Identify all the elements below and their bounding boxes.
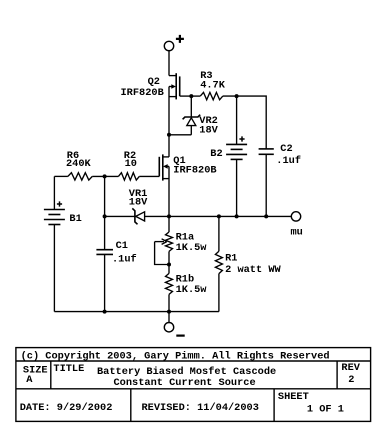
svg-text:1K.5w: 1K.5w <box>176 242 208 254</box>
battery B2 <box>226 96 247 216</box>
node - terminal (bottom) <box>164 323 173 332</box>
svg-text:4.7K: 4.7K <box>200 80 226 92</box>
svg-text:18V: 18V <box>129 196 148 208</box>
svg-text:C2: C2 <box>280 143 292 155</box>
svg-text:.1uf: .1uf <box>276 155 301 167</box>
junction dot Q2 gate node <box>189 94 193 98</box>
wire gate node to R3 <box>191 95 200 97</box>
svg-text:REVISED: 11/04/2003: REVISED: 11/04/2003 <box>142 402 259 414</box>
zener diode VR1 <box>132 208 144 224</box>
svg-text:2: 2 <box>348 374 354 386</box>
title block frame <box>16 348 371 422</box>
capacitor C1 <box>96 216 113 311</box>
svg-text:REV: REV <box>341 362 360 374</box>
resistor R2 <box>118 173 139 180</box>
junction dot C1 bottom <box>103 310 107 314</box>
junction dot divider/VR1/C1 <box>103 214 107 218</box>
potentiometer R1a <box>166 232 173 251</box>
junction dot R6/R2 <box>103 174 107 178</box>
resistor R6 <box>68 173 92 180</box>
wire divider node down <box>104 176 106 216</box>
resistor R1b <box>166 273 173 294</box>
svg-text:mu: mu <box>291 227 303 239</box>
svg-text:240K: 240K <box>66 158 92 170</box>
wire R3 to C2 top corner <box>223 96 266 149</box>
svg-text:1K.5w: 1K.5w <box>176 284 208 296</box>
transistor Q2 IRF820B <box>169 73 191 99</box>
minus label (bottom terminal) <box>176 335 184 337</box>
svg-text:TITLE: TITLE <box>53 363 84 375</box>
svg-text:1 OF 1: 1 OF 1 <box>307 404 344 416</box>
junction dot wiper node <box>167 263 171 267</box>
wire R6 to B1 <box>53 176 55 209</box>
svg-text:B1: B1 <box>69 213 81 225</box>
wire top terminal to Q2 drain <box>168 51 170 76</box>
wire R2 to Q1 gate <box>139 175 159 177</box>
node + terminal (top) <box>164 41 173 50</box>
svg-text:10: 10 <box>125 158 137 170</box>
svg-text:A: A <box>26 374 33 386</box>
wire mid rail to R1 <box>218 216 220 251</box>
wire mid rail to mu terminal <box>169 215 291 217</box>
plus label (B2) <box>239 136 244 141</box>
wire bottom rail <box>54 311 219 313</box>
wiper arrow R1a <box>155 239 169 265</box>
wire VR2 anode to spine <box>169 134 191 136</box>
svg-text:SHEET: SHEET <box>278 391 309 403</box>
svg-text:C1: C1 <box>116 240 128 252</box>
wire R1b to bottom rail <box>168 294 170 311</box>
svg-text:2 watt WW: 2 watt WW <box>225 264 281 276</box>
svg-text:IRF820B: IRF820B <box>173 165 216 177</box>
plus label (B1) <box>57 201 62 206</box>
svg-text:IRF820B: IRF820B <box>121 87 164 99</box>
junction dot B2 bottom <box>235 214 239 218</box>
wire left rail top to R6 <box>54 175 68 177</box>
wire R1a to R1b <box>168 251 170 273</box>
svg-text:(c) Copyright 2003, Gary Pimm.: (c) Copyright 2003, Gary Pimm. All Right… <box>21 351 330 363</box>
wire B1 to bottom rail <box>53 225 55 312</box>
junction dot R1 top <box>217 214 221 218</box>
capacitor C2 <box>259 149 274 217</box>
wire VR1 to Q1 source node <box>145 215 169 217</box>
wire R6 to R2 <box>92 175 118 177</box>
battery B1 <box>44 210 65 225</box>
svg-text:DATE: 9/29/2002: DATE: 9/29/2002 <box>20 402 113 414</box>
resistor R1 <box>215 251 222 273</box>
wire Q1 source to mid rail <box>168 166 170 216</box>
wire R1 to bottom rail <box>218 274 220 312</box>
junction dot C2 bottom <box>264 214 268 218</box>
wire to - terminal <box>168 312 170 323</box>
junction dot bottom terminal node <box>167 310 171 314</box>
svg-text:R1: R1 <box>225 253 237 265</box>
wire Q2 source to Q1 drain <box>168 87 170 157</box>
junction dot Q2 source node <box>167 133 171 137</box>
wire divider node to VR1 <box>105 215 135 217</box>
plus label (top terminal) <box>176 35 184 43</box>
resistor R3 <box>200 92 223 99</box>
svg-text:B2: B2 <box>210 148 222 160</box>
svg-text:Constant Current Source: Constant Current Source <box>114 377 256 389</box>
junction dot Q1 source node <box>167 214 171 218</box>
zener diode VR2 <box>183 96 201 135</box>
svg-text:18V: 18V <box>199 125 218 137</box>
node mu terminal <box>291 212 300 221</box>
wire Q1 source node to R1a <box>168 216 170 232</box>
junction dot R3/B2 <box>235 94 239 98</box>
transistor Q1 IRF820B <box>159 154 169 180</box>
svg-text:.1uf: .1uf <box>112 254 137 266</box>
